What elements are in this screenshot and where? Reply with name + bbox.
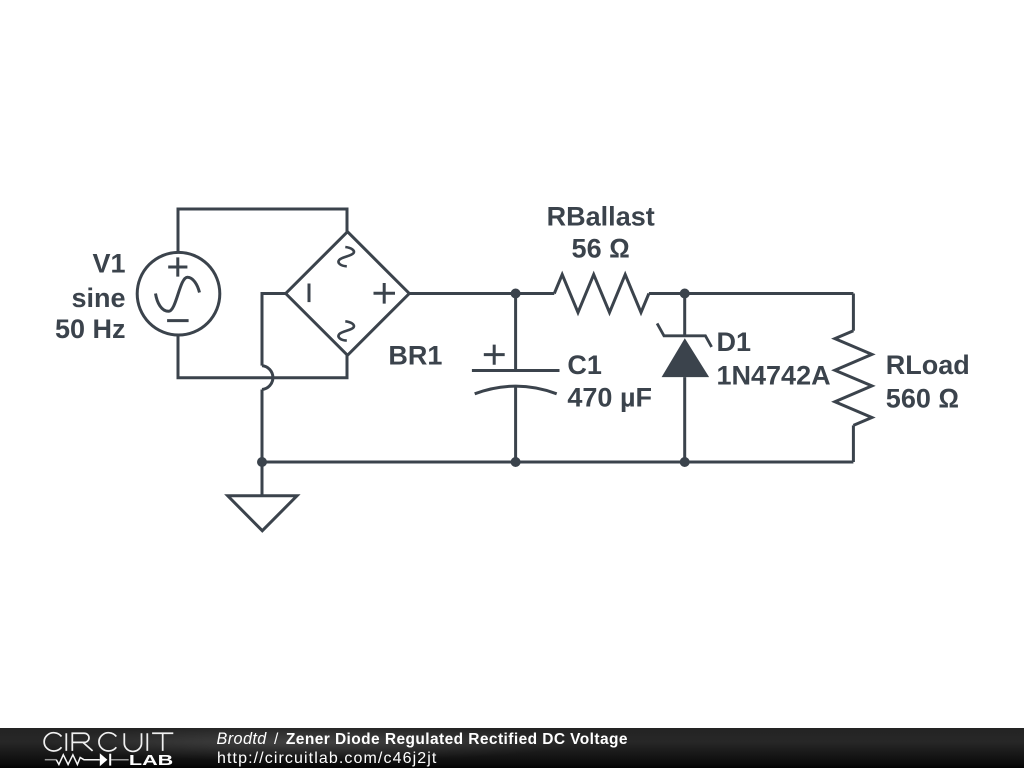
CircuitLab logo CIRCUIT letters xyxy=(44,733,173,752)
resistor RLoad zigzag xyxy=(835,331,872,426)
wire D1 bottom xyxy=(683,377,686,462)
logo resistor-diode line xyxy=(45,759,129,761)
svg-text:BR1: BR1 xyxy=(388,340,442,370)
attribution line 2 xyxy=(217,750,437,768)
node dot C1 top xyxy=(511,289,521,299)
ground wire xyxy=(261,462,264,496)
BR1 bottom tilde xyxy=(338,321,353,340)
letter C xyxy=(99,733,116,751)
svg-text:50 Hz: 50 Hz xyxy=(55,314,126,344)
node dot D1 bottom xyxy=(680,457,690,467)
capacitor C1 top plate xyxy=(472,369,560,372)
ground symbol xyxy=(228,496,297,531)
letter I xyxy=(65,733,67,751)
attribution line 1 xyxy=(217,730,628,749)
wire bridge left vertex to down node xyxy=(262,294,286,366)
logo diode xyxy=(100,753,108,766)
wire V1 top loop xyxy=(178,209,347,253)
node dot D1 top xyxy=(680,289,690,299)
wire RBallast to RLoad top xyxy=(649,292,854,295)
zener D1 triangle xyxy=(662,338,710,377)
wire V1 bottom to bridge bottom xyxy=(178,335,347,378)
V1 minus sign xyxy=(167,319,189,322)
BR1 top tilde xyxy=(338,247,353,266)
svg-text:C1: C1 xyxy=(567,350,602,380)
C1 plus sign xyxy=(484,345,505,365)
node dot C1 bottom xyxy=(511,457,521,467)
svg-text:RBallast: RBallast xyxy=(547,201,655,231)
V1 plus sign xyxy=(168,257,187,276)
RLoad top lead xyxy=(852,294,855,331)
svg-text:1N4742A: 1N4742A xyxy=(717,361,831,391)
capacitor C1 bottom plate arc xyxy=(475,386,557,394)
letter U xyxy=(124,733,141,751)
wire D1 top xyxy=(683,294,686,337)
letter R xyxy=(72,733,92,751)
svg-text:D1: D1 xyxy=(717,327,752,357)
bottom attribution bar xyxy=(0,728,1024,768)
wire C1 bottom xyxy=(514,387,517,463)
letter T xyxy=(152,733,173,751)
wire top rail bridge to RBallast xyxy=(409,292,554,295)
wire bottom rail xyxy=(262,461,853,464)
svg-text:470 µF: 470 µF xyxy=(567,383,652,413)
svg-text:V1: V1 xyxy=(92,249,125,279)
svg-text:RLoad: RLoad xyxy=(886,350,970,380)
svg-text:56 Ω: 56 Ω xyxy=(572,234,630,264)
letter I xyxy=(146,733,148,751)
BR1 minus (vertical bar) xyxy=(308,284,311,303)
wire hop over V1 bottom wire xyxy=(262,366,273,390)
resistor RBallast zigzag xyxy=(554,275,649,313)
logo zigzag xyxy=(56,755,100,765)
BR1 plus sign xyxy=(374,283,396,304)
zener D1 cathode bar xyxy=(657,323,712,347)
RLoad bottom lead xyxy=(852,425,855,462)
letter C xyxy=(44,733,61,751)
voltage source V1 xyxy=(137,252,220,335)
svg-text:sine: sine xyxy=(71,283,125,313)
bridge rectifier BR1 diamond xyxy=(286,232,410,356)
svg-text:560 Ω: 560 Ω xyxy=(886,384,959,414)
V1 sine wave xyxy=(156,277,200,311)
wire hop bottom to ground junction xyxy=(261,390,264,463)
node dot ground junction xyxy=(257,457,267,467)
wire C1 top xyxy=(514,294,517,370)
